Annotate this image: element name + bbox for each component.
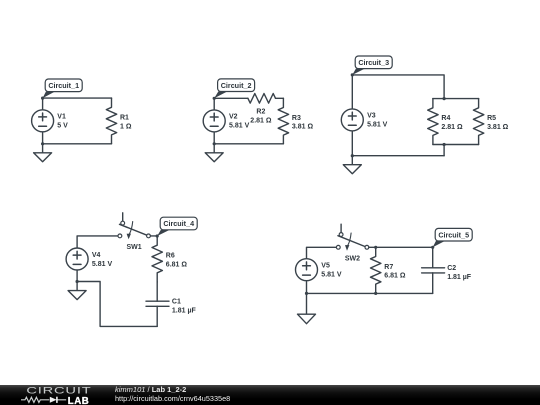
wire V5 top to switch <box>307 247 337 258</box>
voltage source V2 <box>203 98 225 144</box>
svg-text:3.81 Ω: 3.81 Ω <box>292 124 314 131</box>
wire bottom net (circuit 2) <box>214 143 283 145</box>
node junction dot bottom (circuit 2) <box>213 142 216 145</box>
svg-text:6.81 Ω: 6.81 Ω <box>166 261 188 268</box>
node A junction dot <box>41 97 44 100</box>
label R1 value <box>120 115 132 131</box>
net tag Circuit_4 <box>157 217 197 236</box>
node dot at R7 top <box>374 246 377 249</box>
wire switch to C2 top (circuit 5) <box>369 246 433 248</box>
ground (circuit 5) <box>298 293 316 323</box>
ground (circuit 3) <box>343 156 361 174</box>
svg-text:V3: V3 <box>367 113 376 120</box>
CircuitLab logo <box>18 385 128 405</box>
label R6 value <box>166 253 188 269</box>
label SW1 <box>127 244 142 251</box>
resistor R2 <box>248 94 276 104</box>
resistor R7 <box>371 247 381 293</box>
net tag Circuit_2 <box>214 79 254 98</box>
node B junction dot <box>41 142 44 145</box>
svg-text:R3: R3 <box>292 115 301 122</box>
label V1 value <box>57 114 68 130</box>
label R7 value <box>384 264 406 280</box>
svg-text:R5: R5 <box>487 115 496 122</box>
wire top-right (R2 to R3) <box>276 97 284 99</box>
resistor R5 <box>473 99 483 145</box>
svg-text:5.81 V: 5.81 V <box>92 261 113 268</box>
node dot at C2 top <box>431 246 434 249</box>
svg-text:1.81 µF: 1.81 µF <box>447 274 472 281</box>
svg-text:5.81 V: 5.81 V <box>321 272 342 279</box>
resistor R4 <box>428 99 438 145</box>
wire V4 top to switch <box>77 236 118 248</box>
wire parallel top bar <box>433 98 479 100</box>
net tag Circuit_3 <box>352 56 392 75</box>
wire bottom net (circuit 5) <box>307 292 433 294</box>
svg-text:C2: C2 <box>447 265 456 272</box>
node dot at R7 bottom <box>374 292 377 295</box>
node junction dot top (circuit 2) <box>213 97 216 100</box>
ground (circuit 4) <box>68 282 86 300</box>
svg-text:2.81 Ω: 2.81 Ω <box>250 117 272 124</box>
svg-text:6.81 Ω: 6.81 Ω <box>384 273 406 280</box>
label V3 value <box>367 113 388 129</box>
node dot bottom-left (circuit 3) <box>351 154 354 157</box>
svg-text:1.81 µF: 1.81 µF <box>172 308 197 315</box>
label V4 value <box>92 252 113 268</box>
svg-text:CIRCUIT: CIRCUIT <box>26 385 91 396</box>
svg-text:5.81 V: 5.81 V <box>367 122 388 129</box>
net tag Circuit_1 <box>43 79 83 98</box>
svg-text:V2: V2 <box>229 114 238 121</box>
label C1 value <box>172 299 197 315</box>
label R3 value <box>292 115 314 131</box>
node dot parallel top junction <box>443 97 446 100</box>
wire parallel bottom bar <box>433 145 479 156</box>
label V2 value <box>229 114 250 130</box>
svg-text:R1: R1 <box>120 115 129 122</box>
node dot below V5 <box>305 292 308 295</box>
switch SW2 <box>336 224 368 251</box>
footer line 2: url <box>115 394 230 403</box>
wire top net (node A to R1 top) <box>43 97 112 99</box>
label R4 value <box>441 115 463 131</box>
resistor R1 <box>106 98 116 144</box>
ground (circuit 2) <box>205 144 223 162</box>
ground (circuit 1) <box>34 144 52 162</box>
node dot below V4 <box>76 280 79 283</box>
wire bottom net (node B to R1 bottom) <box>43 143 112 145</box>
label SW2 <box>345 256 360 263</box>
voltage source V3 <box>341 75 363 156</box>
resistor R6 <box>152 236 162 282</box>
switch SW1 <box>118 213 150 240</box>
resistor R3 <box>278 98 288 144</box>
label R2 value <box>250 108 272 124</box>
footer line 1: user / title <box>115 385 186 394</box>
wire bottom return loop (circuit 4) <box>77 282 157 327</box>
node dot at R6 top <box>156 234 159 237</box>
node dot top-left (circuit 3) <box>351 73 354 76</box>
svg-text:2.81 Ω: 2.81 Ω <box>441 124 463 131</box>
capacitor C2 <box>422 247 445 293</box>
svg-text:1 Ω: 1 Ω <box>120 124 132 131</box>
node dot parallel bottom junction <box>443 143 446 146</box>
wire R6 to C1 <box>156 282 158 301</box>
svg-text:R4: R4 <box>441 115 450 122</box>
wire top-left (node to R2) <box>214 97 248 99</box>
svg-text:3.81 Ω: 3.81 Ω <box>487 124 509 131</box>
voltage source V5 <box>296 259 318 294</box>
svg-text:V5: V5 <box>321 263 330 270</box>
wire top net (circuit 3) <box>352 75 444 99</box>
svg-text:R7: R7 <box>384 264 393 271</box>
svg-text:LAB: LAB <box>68 395 89 405</box>
voltage source V1 <box>32 98 54 144</box>
label V5 value <box>321 263 342 279</box>
wire switch to node (circuit 4) <box>150 235 157 237</box>
svg-text:SW2: SW2 <box>345 256 360 263</box>
svg-text:5.81 V: 5.81 V <box>229 123 250 130</box>
svg-text:Circuit_1: Circuit_1 <box>48 81 79 90</box>
svg-text:V1: V1 <box>57 114 66 121</box>
svg-text:C1: C1 <box>172 299 181 306</box>
footer bar <box>0 385 540 405</box>
net tag Circuit_5 <box>433 228 473 247</box>
capacitor C1 <box>146 301 169 326</box>
svg-text:Circuit_3: Circuit_3 <box>358 58 389 67</box>
label C2 value <box>447 265 472 281</box>
svg-text:5 V: 5 V <box>57 123 68 130</box>
svg-text:Circuit_4: Circuit_4 <box>163 219 194 228</box>
svg-text:R2: R2 <box>256 108 265 115</box>
svg-text:R6: R6 <box>166 253 175 260</box>
svg-text:V4: V4 <box>92 252 101 259</box>
label R5 value <box>487 115 509 131</box>
voltage source V4 <box>66 248 88 282</box>
wire bottom net (circuit 3) <box>352 155 444 157</box>
svg-text:Circuit_2: Circuit_2 <box>221 81 252 90</box>
svg-text:Circuit_5: Circuit_5 <box>438 230 469 239</box>
svg-text:SW1: SW1 <box>127 244 142 251</box>
